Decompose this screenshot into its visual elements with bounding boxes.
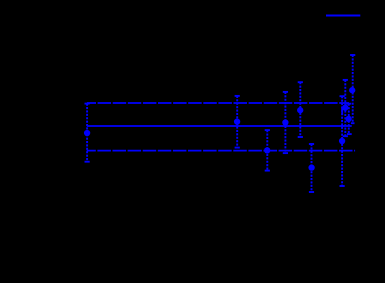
- errorbar 2 stem: [236, 96, 238, 148]
- errorbar 4 bottom cap: [283, 152, 288, 154]
- errorbar 3 bottom cap: [265, 170, 270, 172]
- errorbar 5 stem: [299, 82, 301, 137]
- data point 8: [342, 104, 348, 110]
- errorbar 8 stem: [344, 80, 346, 136]
- data point 10: [349, 87, 355, 93]
- data point 9: [345, 116, 351, 122]
- errorbar 6 stem: [311, 144, 313, 192]
- errorbar 1 stem: [86, 104, 88, 162]
- solid fit line: [87, 125, 352, 127]
- errorbar 6 bottom cap: [309, 191, 314, 193]
- errorbar 7 stem dense segment: [341, 107, 343, 115]
- data point 2: [234, 118, 240, 124]
- errorbar 2 bottom cap: [235, 147, 240, 149]
- data point 3: [264, 147, 270, 153]
- errorbar 3 top cap: [265, 129, 270, 131]
- legend sample line: [326, 15, 360, 17]
- lower dashed fit line: [87, 150, 355, 152]
- errorbar 1 top cap: [85, 103, 90, 105]
- data point 4: [282, 119, 288, 125]
- data point 1: [84, 130, 90, 136]
- errorbar 8 top cap: [343, 79, 348, 81]
- errorbar 7 top cap: [340, 95, 345, 97]
- data point 6: [308, 164, 314, 170]
- errorbar 9 stem: [348, 104, 350, 134]
- errorbar 2 top cap: [235, 95, 240, 97]
- errorbar 5 top cap: [298, 81, 303, 83]
- errorbar 4 stem: [284, 92, 286, 153]
- errorbar 10 stem: [352, 55, 354, 123]
- upper dashed fit line: [87, 102, 349, 104]
- data point 7: [339, 138, 345, 144]
- errorbar 7 stem: [341, 96, 343, 186]
- errorbar 7 bottom cap: [340, 185, 345, 187]
- errorbar 5 bottom cap: [298, 136, 303, 138]
- errorbar 9 bottom cap: [347, 133, 352, 135]
- errorbar 1 bottom cap: [85, 161, 90, 163]
- errorbar 6 top cap: [309, 143, 314, 145]
- errorbar 8 bottom cap: [343, 135, 348, 137]
- errorbar 4 top cap: [283, 91, 288, 93]
- errorbar 10 bottom cap: [351, 122, 355, 124]
- errorbar 10 top cap: [350, 54, 355, 56]
- errorbar 9 top cap: [346, 103, 351, 105]
- errorbar 3 stem: [266, 130, 268, 171]
- data point 5: [297, 107, 303, 113]
